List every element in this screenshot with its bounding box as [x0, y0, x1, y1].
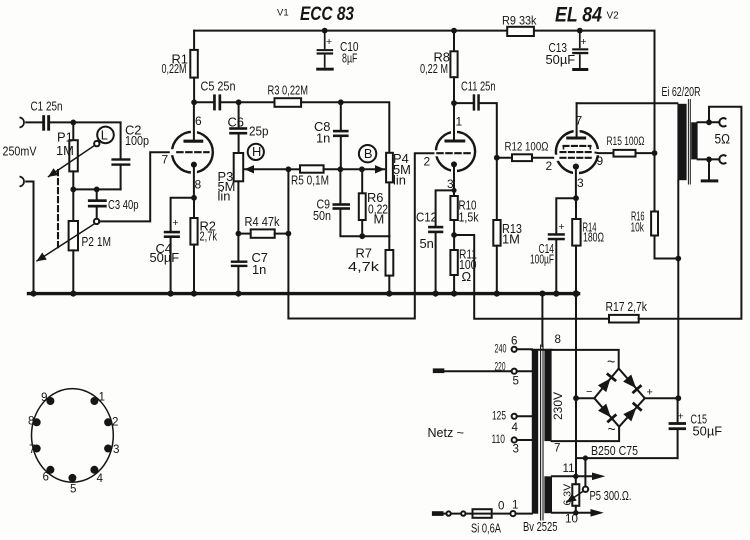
svg-text:C5 25n: C5 25n: [201, 78, 236, 93]
svg-text:V1: V1: [277, 8, 289, 19]
svg-text:7: 7: [29, 443, 35, 456]
svg-text:B250 C75: B250 C75: [591, 444, 638, 458]
svg-text:ECC 83: ECC 83: [300, 3, 354, 25]
svg-text:5: 5: [513, 375, 519, 388]
svg-text:lin: lin: [218, 189, 231, 204]
svg-text:7: 7: [554, 442, 560, 455]
svg-text:1n: 1n: [252, 262, 266, 277]
svg-text:9: 9: [41, 391, 47, 404]
svg-text:8: 8: [28, 414, 34, 427]
svg-text:8: 8: [195, 178, 202, 192]
svg-text:C11 25n: C11 25n: [461, 79, 496, 94]
svg-text:8: 8: [555, 333, 561, 346]
svg-text:1,5k: 1,5k: [459, 209, 479, 224]
svg-text:H: H: [252, 144, 261, 159]
svg-text:2: 2: [112, 415, 118, 428]
svg-text:6: 6: [195, 114, 202, 128]
svg-text:M: M: [374, 211, 385, 226]
svg-text:180Ω: 180Ω: [583, 230, 604, 245]
svg-text:6,3V: 6,3V: [562, 484, 574, 506]
svg-text:C1 25n: C1 25n: [31, 99, 63, 114]
svg-text:0: 0: [498, 500, 504, 513]
svg-text:+: +: [678, 411, 684, 423]
svg-text:~: ~: [608, 421, 616, 437]
svg-text:100p: 100p: [125, 133, 149, 148]
svg-text:5n: 5n: [420, 236, 434, 251]
svg-text:R15 100Ω: R15 100Ω: [607, 136, 645, 148]
svg-text:6: 6: [43, 471, 49, 484]
svg-text:4: 4: [97, 472, 104, 485]
svg-text:9: 9: [597, 154, 604, 168]
svg-text:250mV: 250mV: [3, 145, 38, 159]
svg-text:Bv 2525: Bv 2525: [523, 519, 558, 534]
svg-text:B: B: [364, 146, 373, 161]
svg-text:+: +: [559, 221, 565, 233]
svg-text:3: 3: [447, 177, 454, 191]
svg-text:Ei 62/20R: Ei 62/20R: [662, 85, 701, 99]
svg-text:0,22 M: 0,22 M: [420, 61, 448, 76]
svg-text:1: 1: [456, 115, 463, 129]
svg-text:R5 0,1M: R5 0,1M: [291, 172, 329, 187]
svg-text:2: 2: [424, 155, 431, 169]
svg-text:C6: C6: [228, 115, 244, 130]
svg-text:50µF: 50µF: [546, 52, 576, 67]
svg-text:5: 5: [70, 483, 76, 496]
svg-text:11: 11: [563, 462, 575, 475]
svg-text:7: 7: [162, 153, 169, 167]
svg-text:+: +: [581, 36, 587, 48]
svg-text:+: +: [326, 36, 332, 48]
svg-text:P2 1M: P2 1M: [82, 234, 112, 249]
svg-text:240: 240: [495, 343, 507, 356]
svg-text:4,7k: 4,7k: [348, 259, 380, 274]
svg-text:V2: V2: [607, 11, 620, 22]
svg-text:230V: 230V: [551, 392, 565, 420]
svg-text:R9 33k: R9 33k: [502, 14, 537, 28]
svg-text:10k: 10k: [631, 220, 645, 235]
svg-text:P5 300.Ω.: P5 300.Ω.: [590, 488, 632, 503]
svg-text:3: 3: [513, 443, 519, 456]
svg-text:+: +: [173, 217, 179, 229]
svg-text:C12: C12: [416, 209, 437, 224]
svg-text:lin: lin: [393, 173, 406, 188]
svg-text:0,22M: 0,22M: [162, 61, 187, 76]
svg-text:5Ω: 5Ω: [715, 132, 731, 147]
svg-text:1M: 1M: [56, 143, 74, 158]
svg-text:C3 40p: C3 40p: [108, 197, 139, 212]
svg-text:7: 7: [576, 114, 583, 128]
svg-text:6: 6: [511, 335, 517, 348]
svg-text:+: +: [647, 387, 653, 399]
svg-text:8µF: 8µF: [342, 51, 358, 66]
svg-text:10: 10: [565, 513, 578, 526]
svg-text:50µF: 50µF: [150, 250, 180, 265]
svg-text:3: 3: [113, 443, 119, 456]
svg-text:1: 1: [512, 499, 518, 512]
svg-text:4: 4: [512, 421, 519, 434]
svg-text:R3 0,22M: R3 0,22M: [268, 82, 309, 97]
svg-text:1M: 1M: [502, 232, 520, 247]
svg-text:50µF: 50µF: [693, 424, 723, 439]
svg-text:220: 220: [495, 361, 506, 374]
svg-text:50n: 50n: [313, 208, 331, 223]
svg-text:110: 110: [492, 433, 506, 446]
svg-text:~: ~: [607, 354, 615, 370]
svg-text:125: 125: [492, 410, 506, 423]
svg-text:25p: 25p: [249, 124, 269, 139]
svg-text:2,7k: 2,7k: [200, 229, 218, 244]
svg-text:1n: 1n: [316, 131, 330, 146]
svg-text:3: 3: [577, 176, 584, 190]
svg-text:−: −: [586, 386, 592, 398]
svg-text:Ω: Ω: [462, 269, 472, 284]
svg-text:2: 2: [546, 159, 553, 173]
svg-text:100µF: 100µF: [530, 252, 554, 267]
svg-text:EL 84: EL 84: [555, 4, 602, 27]
svg-text:Si 0,6A: Si 0,6A: [471, 521, 501, 536]
svg-text:R4 47k: R4 47k: [245, 214, 280, 229]
svg-text:R17 2,7k: R17 2,7k: [606, 299, 648, 314]
svg-text:Netz ~: Netz ~: [428, 426, 465, 440]
svg-text:1: 1: [99, 391, 105, 404]
svg-text:R12 100Ω: R12 100Ω: [505, 142, 549, 154]
svg-text:L: L: [101, 127, 108, 142]
